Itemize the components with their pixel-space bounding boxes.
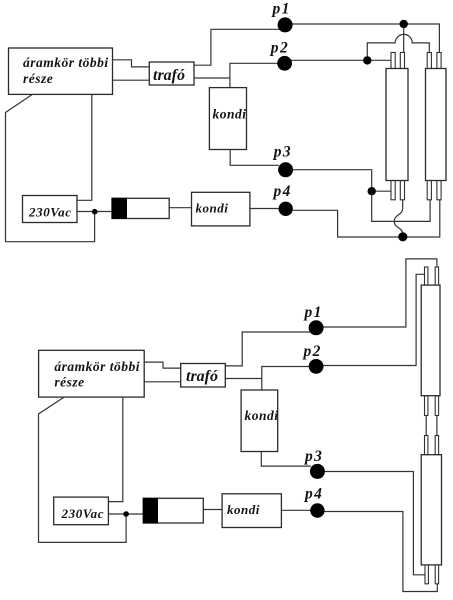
- svg-text:p3: p3: [303, 448, 323, 465]
- svg-text:áramkör többi: áramkör többi: [54, 359, 140, 374]
- svg-text:p1: p1: [303, 304, 323, 321]
- svg-text:p3: p3: [272, 144, 292, 161]
- svg-text:p4: p4: [303, 486, 323, 503]
- svg-text:kondi: kondi: [196, 200, 229, 215]
- svg-text:p2: p2: [269, 40, 289, 57]
- svg-text:része: része: [54, 375, 84, 390]
- svg-text:része: része: [23, 71, 53, 86]
- svg-text:p4: p4: [272, 183, 292, 200]
- svg-text:trafó: trafó: [153, 67, 185, 84]
- svg-text:kondi: kondi: [213, 107, 247, 122]
- svg-text:p2: p2: [302, 343, 322, 360]
- svg-text:230Vac: 230Vac: [28, 204, 72, 219]
- svg-text:trafó: trafó: [186, 368, 218, 385]
- svg-text:áramkör többi: áramkör többi: [23, 55, 109, 70]
- svg-text:230Vac: 230Vac: [61, 506, 105, 521]
- svg-text:kondi: kondi: [227, 502, 260, 517]
- svg-text:p1: p1: [271, 1, 291, 18]
- svg-text:kondi: kondi: [245, 408, 279, 423]
